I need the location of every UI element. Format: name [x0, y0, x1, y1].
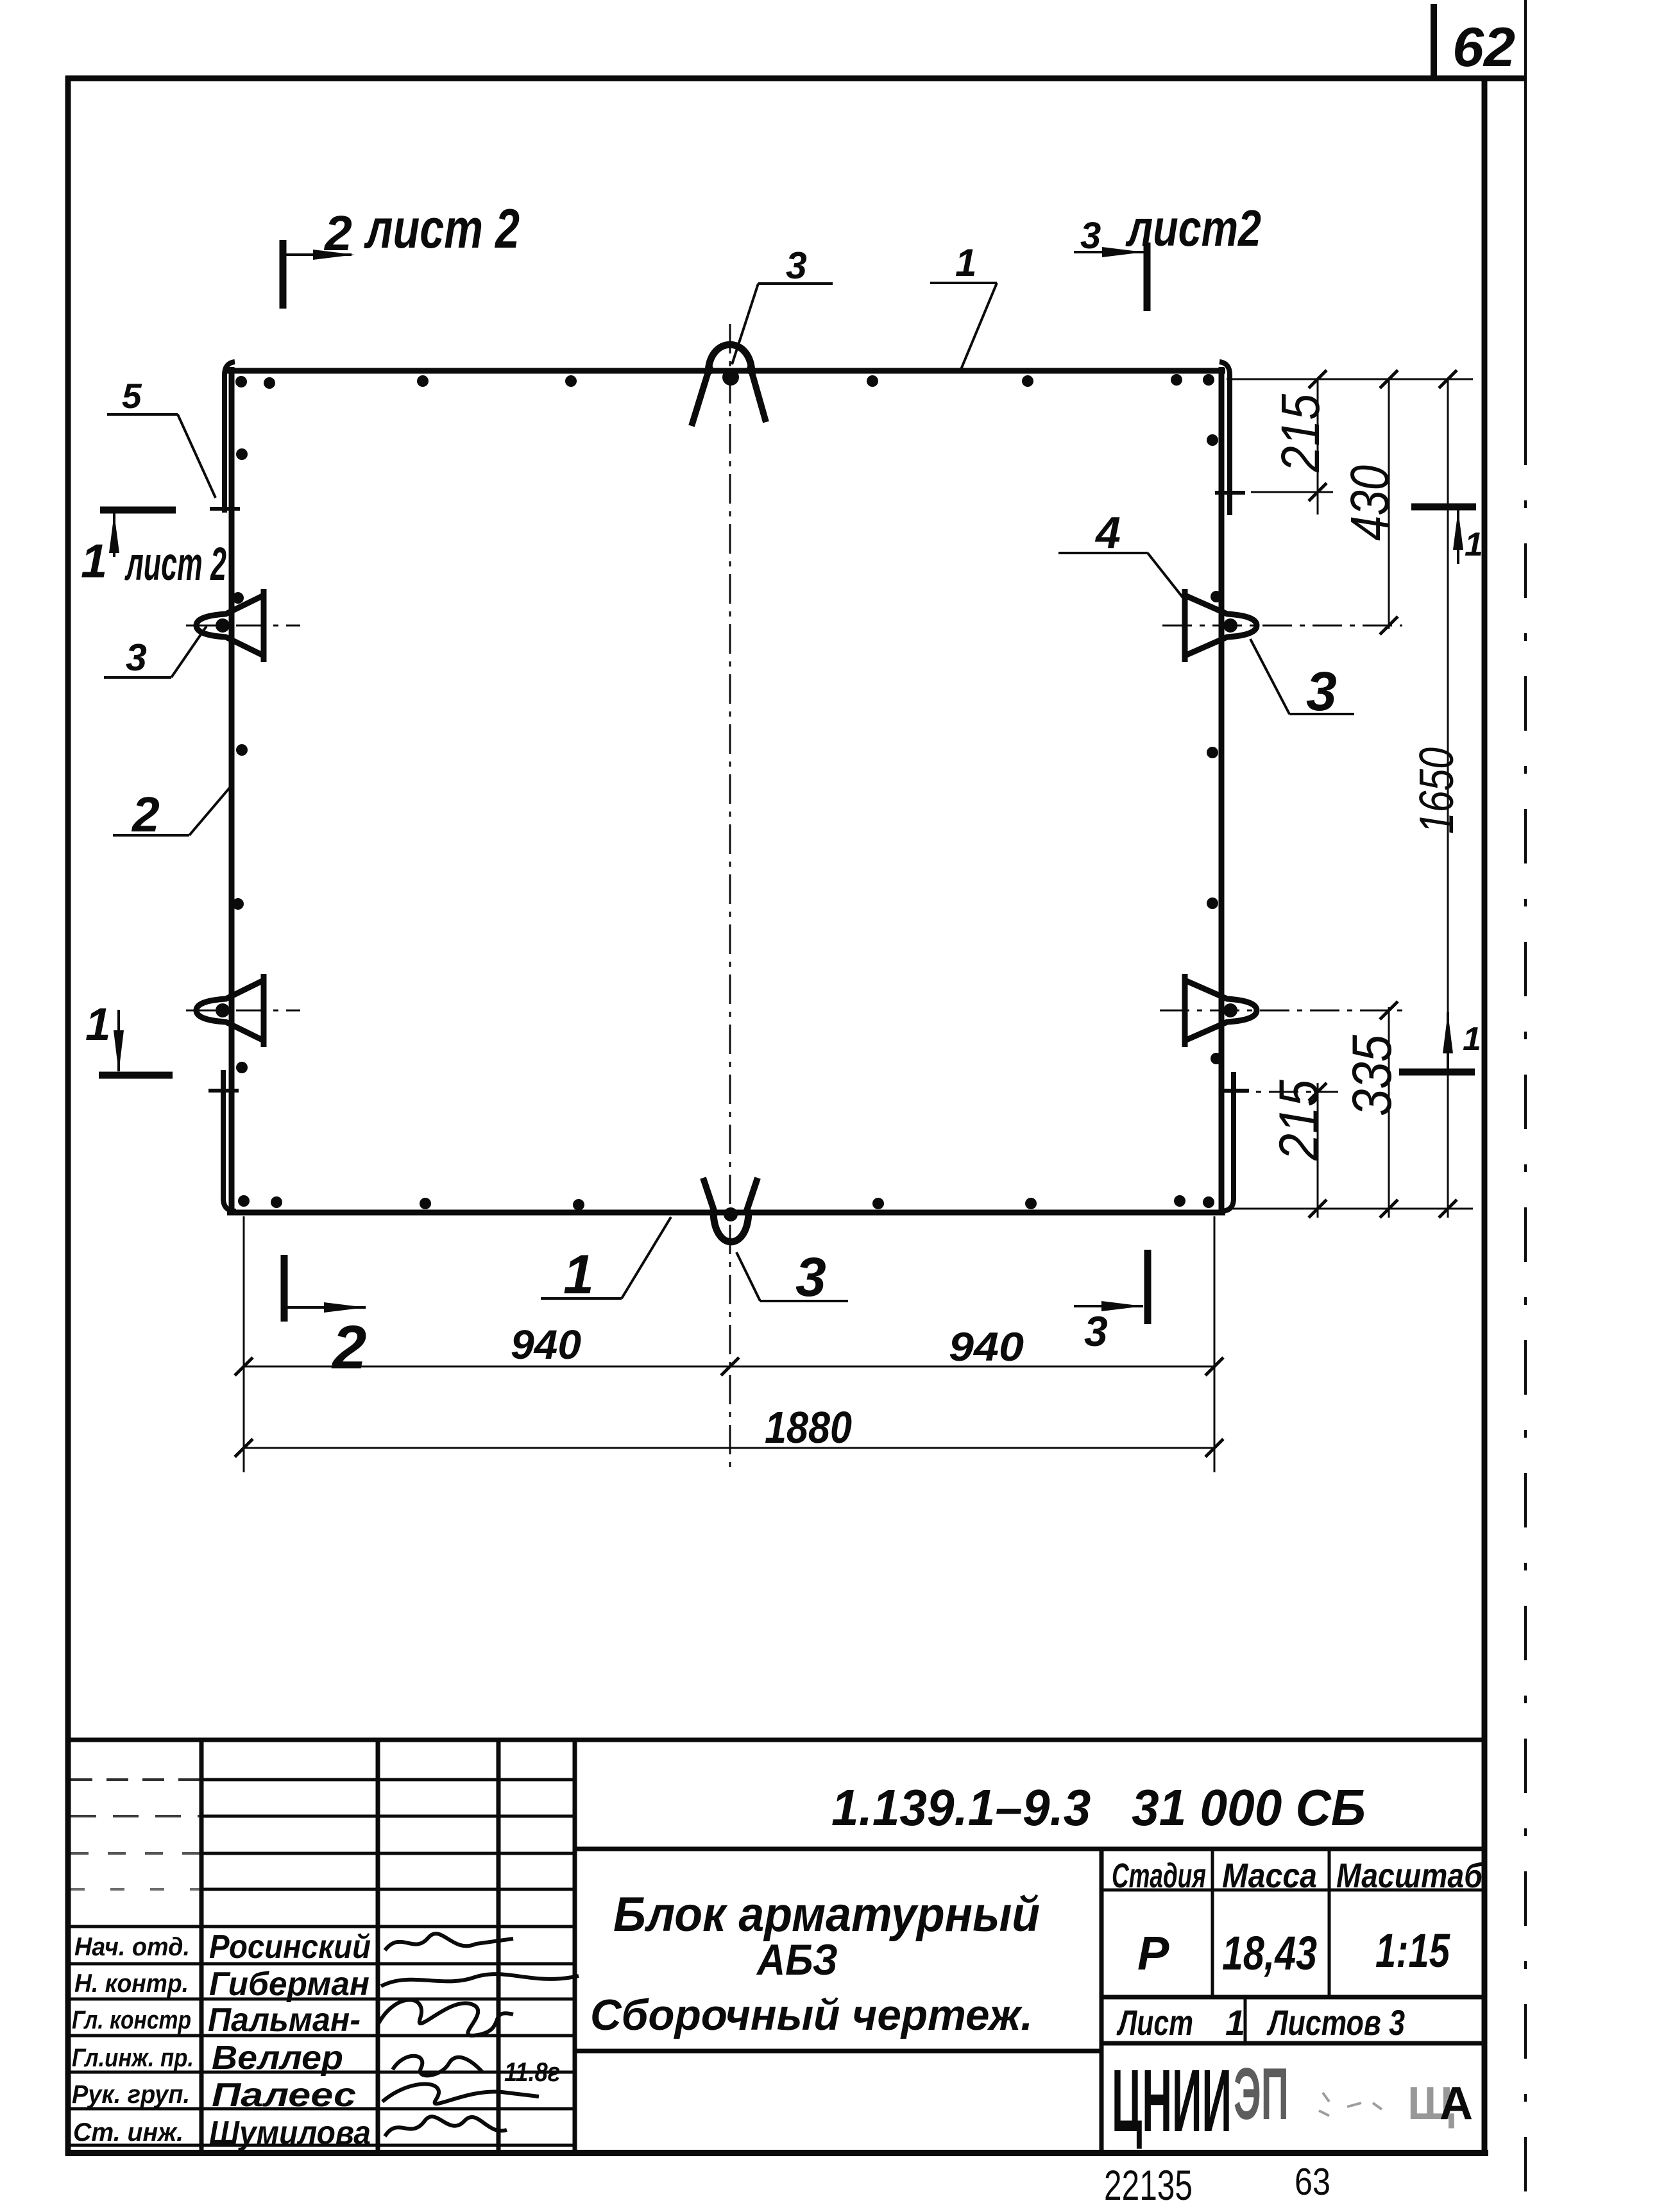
svg-text:215: 215 [1270, 394, 1330, 473]
svg-text:Нач. отд.: Нач. отд. [74, 1933, 190, 1961]
svg-text:1.139.1–9.3 31 000 СБ: 1.139.1–9.3 31 000 СБ [831, 1779, 1366, 1836]
svg-text:лист2: лист2 [1125, 200, 1261, 257]
svg-text:лист 2: лист 2 [124, 538, 226, 590]
svg-text:22135: 22135 [1104, 2161, 1193, 2209]
svg-text:1: 1 [85, 1000, 111, 1050]
svg-text:3: 3 [795, 1246, 826, 1308]
svg-text:940: 940 [511, 1322, 581, 1368]
svg-text:Шумилова: Шумилова [209, 2114, 371, 2152]
svg-text:3: 3 [786, 244, 807, 287]
svg-text:Блок арматурный: Блок арматурный [613, 1887, 1040, 1942]
svg-text:ЭП: ЭП [1234, 2054, 1289, 2135]
svg-text:3: 3 [1084, 1307, 1108, 1355]
svg-text:1: 1 [563, 1244, 594, 1306]
svg-text:Р: Р [1137, 1927, 1169, 1980]
svg-text:940: 940 [949, 1325, 1024, 1370]
svg-text:лист 2: лист 2 [364, 198, 520, 260]
svg-text:Рук. груп.: Рук. груп. [72, 2080, 190, 2109]
svg-text:1: 1 [955, 241, 976, 284]
svg-text:Листов 3: Листов 3 [1266, 2002, 1405, 2043]
svg-text:18,43: 18,43 [1222, 1927, 1317, 1980]
svg-text:1650: 1650 [1409, 747, 1463, 834]
svg-text:Н. контр.: Н. контр. [74, 1970, 189, 1998]
svg-text:Росинский: Росинский [209, 1928, 371, 1966]
svg-text:ЦНИИ: ЦНИИ [1112, 2052, 1232, 2150]
svg-text:А: А [1440, 2078, 1473, 2129]
svg-text:2: 2 [131, 787, 160, 842]
svg-text:3: 3 [1306, 661, 1337, 722]
svg-text:430: 430 [1339, 465, 1400, 541]
svg-text:335: 335 [1341, 1034, 1403, 1116]
svg-text:Гл. констр: Гл. констр [72, 2006, 191, 2034]
svg-text:1880: 1880 [765, 1402, 852, 1452]
svg-text:62: 62 [1452, 17, 1515, 78]
svg-text:3: 3 [126, 636, 147, 679]
svg-text:2: 2 [331, 1313, 366, 1382]
svg-text:АБЗ: АБЗ [756, 1935, 838, 1984]
svg-text:1: 1 [1465, 526, 1483, 563]
svg-text:Пальман-: Пальман- [208, 2002, 361, 2039]
svg-text:1: 1 [1463, 1021, 1481, 1058]
svg-text:Сборочный чертеж.: Сборочный чертеж. [590, 1991, 1033, 2039]
svg-text:Масса: Масса [1222, 1857, 1317, 1895]
svg-text:Гиберман: Гиберман [209, 1966, 370, 2003]
svg-text:11.8г: 11.8г [504, 2057, 560, 2087]
svg-text:Палеес: Палеес [212, 2077, 356, 2114]
svg-text:1:15: 1:15 [1375, 1924, 1450, 1977]
svg-text:3: 3 [1080, 215, 1101, 257]
svg-text:63: 63 [1295, 2161, 1330, 2203]
svg-text:Гл.инж. пр.: Гл.инж. пр. [72, 2044, 194, 2072]
svg-text:5: 5 [122, 376, 142, 416]
svg-text:1: 1 [1225, 2002, 1245, 2043]
svg-text:215: 215 [1268, 1079, 1330, 1161]
svg-text:Стадия: Стадия [1112, 1857, 1206, 1895]
svg-text:Лист: Лист [1116, 2002, 1193, 2043]
svg-text:Веллер: Веллер [212, 2039, 343, 2077]
svg-text:1: 1 [81, 534, 107, 588]
svg-text:2: 2 [323, 206, 352, 261]
svg-text:Ст. инж.: Ст. инж. [73, 2118, 183, 2147]
svg-text:Масштаб: Масштаб [1336, 1857, 1483, 1895]
svg-text:4: 4 [1094, 507, 1121, 557]
